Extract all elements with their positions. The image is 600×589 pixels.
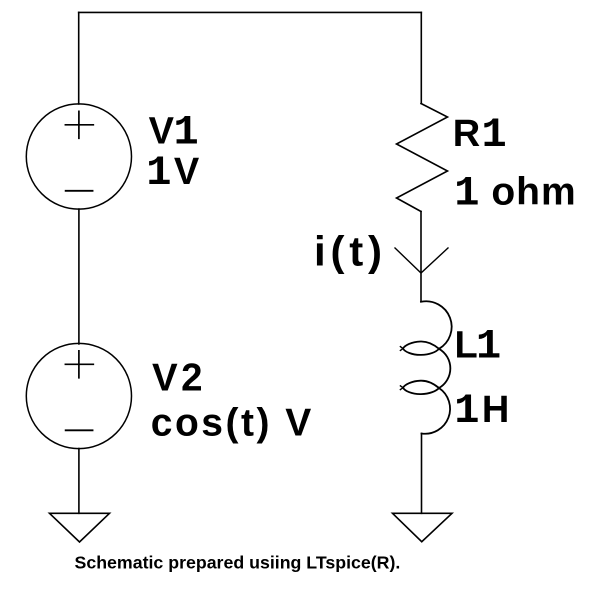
ground right [393, 513, 453, 541]
inductor L1 loop 1 tip [400, 347, 403, 351]
svg-text:cos(t) V: cos(t) V [151, 402, 314, 445]
svg-text:1V: 1V [146, 149, 200, 197]
inductor L1 arc bottom [422, 388, 451, 434]
svg-text:1 ohm: 1 ohm [454, 169, 576, 217]
inductor L1 loop 2 tip [400, 386, 403, 390]
inductor L1 loop 2 [403, 381, 439, 394]
V2 plus [65, 351, 93, 378]
inductor L1 arc top [421, 301, 452, 349]
wire L1 to ground [421, 434, 423, 514]
V1 minus [66, 190, 93, 192]
inductor L1 loop 1 [403, 341, 439, 354]
svg-text:i(t): i(t) [314, 227, 387, 274]
wire R1 to L1 [420, 212, 422, 302]
wire top-left vertical [78, 12, 80, 104]
inductor L1 arc middle [439, 349, 450, 388]
ground left [50, 513, 110, 542]
svg-text:V2: V2 [152, 357, 206, 400]
svg-text:L1: L1 [455, 322, 502, 370]
V1 plus [65, 111, 93, 138]
wire top-right vertical [420, 12, 422, 103]
voltage source V1 [26, 104, 131, 209]
wire V1 to V2 [78, 209, 80, 344]
V2 minus [66, 429, 93, 431]
voltage source V2 [26, 343, 131, 448]
svg-text:R1: R1 [453, 111, 507, 159]
wire top horizontal [79, 11, 422, 13]
svg-text:1H: 1H [454, 387, 509, 435]
resistor R1 [397, 104, 448, 212]
svg-text:Schematic prepared usiing LTsp: Schematic prepared usiing LTspice(R). [75, 553, 401, 573]
current arrow i(t) [395, 248, 448, 273]
wire V2 to ground [78, 449, 80, 514]
